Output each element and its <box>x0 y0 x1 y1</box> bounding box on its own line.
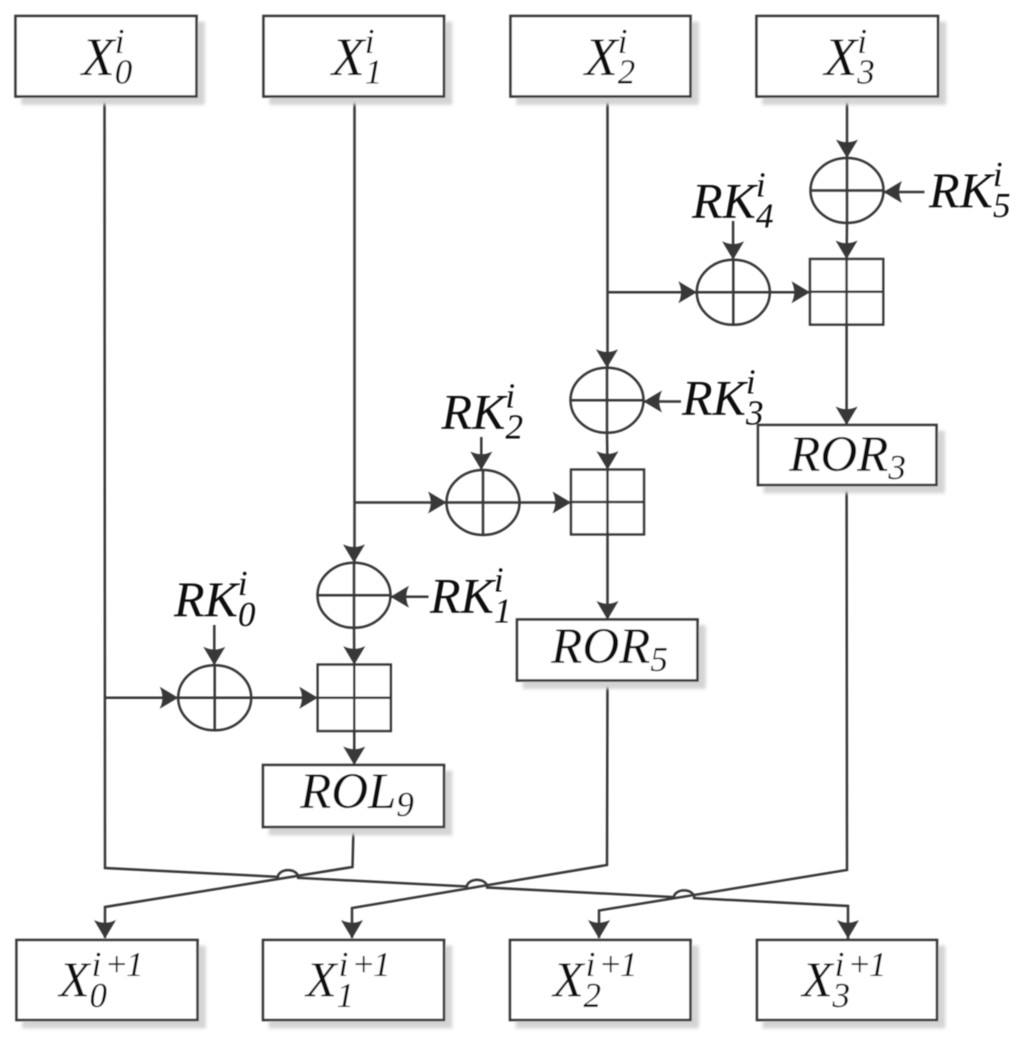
arrow RK2 into xor (top) <box>470 452 492 471</box>
svg-text:ROR3: ROR3 <box>788 427 906 487</box>
arrow into ROL9 <box>343 747 365 766</box>
svg-text:RKi3: RKi3 <box>681 363 763 433</box>
X2^i input box <box>511 16 691 97</box>
wire X3 vertical <box>846 96 849 158</box>
ROR3 rotate box <box>758 425 937 487</box>
wire RK0 label to xor <box>213 625 216 665</box>
arrow into X3^(i+1) box <box>837 920 859 939</box>
X1^i input box <box>264 16 445 97</box>
arrow into ROR3 <box>836 407 858 426</box>
svg-text:1: 1 <box>337 976 355 1015</box>
arrow into RK1 xor (top) <box>343 544 365 563</box>
wire RK3 xor to add box 2 <box>606 433 609 470</box>
svg-text:1: 1 <box>869 945 887 984</box>
svg-text:2: 2 <box>584 976 602 1015</box>
xor gate for RK1 (X1 line) <box>318 563 391 628</box>
arrow into add box 2 (left) <box>553 492 572 514</box>
wire ROR3 output crossover to X2 output <box>599 485 847 938</box>
wire ROL9 output crossover to X0 output <box>105 827 354 938</box>
svg-text:ROR5: ROR5 <box>550 619 668 679</box>
xor gate for RK2 (X1 branch) <box>447 470 520 535</box>
modular add box (X0,X1 branch) <box>318 665 391 731</box>
X0^(i+1) output box <box>17 940 198 1020</box>
svg-text:X: X <box>304 951 339 1007</box>
wire RK4 label to xor <box>732 221 735 260</box>
svg-text:RKi2: RKi2 <box>441 377 523 447</box>
wire RK3 label to xor <box>644 400 682 403</box>
arrow into add box 1 (left) <box>299 687 318 709</box>
arrow into add box 3 (left) <box>792 281 811 303</box>
arrow into RK4 xor (left) <box>678 281 697 303</box>
wire X0 vertical + long crossover to X3 output (with hops) <box>105 96 849 939</box>
svg-text:1: 1 <box>620 945 638 984</box>
svg-text:RKi0: RKi0 <box>173 564 256 634</box>
svg-text:3: 3 <box>832 976 851 1015</box>
wire X1 vertical <box>353 96 356 563</box>
modular add box (X2,X3 branch) <box>810 259 883 325</box>
wire RK1 xor to add box 1 <box>353 628 356 665</box>
arrow RK5 into xor (right) <box>884 181 903 203</box>
wire add box 1 to ROL9 <box>353 731 356 765</box>
arrow into RK0 xor (left) <box>160 687 179 709</box>
svg-text:0: 0 <box>90 976 108 1015</box>
X0^i input box <box>16 16 197 97</box>
arrow into ROR5 <box>597 601 619 620</box>
arrow into X1^(i+1) box <box>341 920 363 939</box>
svg-text:X: X <box>551 951 586 1007</box>
svg-text:RKi4: RKi4 <box>691 166 773 236</box>
wire X2 branch to RK4 xor <box>608 291 697 294</box>
arrow RK1 into xor (right) <box>391 586 410 608</box>
arrow RK4 into xor (top) <box>722 241 744 260</box>
wire RK5 xor to add box 3 <box>845 223 848 259</box>
wire RK2 label to xor <box>480 437 483 470</box>
arrow into X0^(i+1) box <box>94 920 116 939</box>
xor gate for RK3 (X2 line) <box>571 368 644 433</box>
svg-text:X: X <box>57 951 92 1007</box>
svg-text:+: + <box>848 945 872 984</box>
X2^(i+1) output box <box>510 940 691 1020</box>
wire RK0 xor to add box 1 <box>251 697 318 700</box>
modular add box (X1,X2 branch) <box>571 470 644 535</box>
arrow into RK2 xor (left) <box>428 492 447 514</box>
wire add box 3 to ROR3 <box>845 325 848 425</box>
svg-text:RKi1: RKi1 <box>429 561 511 631</box>
wire X1 branch to RK2 xor <box>355 501 447 504</box>
svg-text:1: 1 <box>373 945 391 984</box>
wire X2 vertical <box>606 96 609 368</box>
ROL9 rotate box <box>263 764 444 827</box>
X3^i input box <box>757 16 939 97</box>
arrow into add box 1 (top) <box>343 646 365 665</box>
xor gate for RK4 (X2 branch) <box>697 260 770 325</box>
arrow RK3 into xor (right) <box>644 391 663 413</box>
xor gate for RK0 (X0 branch) <box>178 665 251 730</box>
arrow into RK3 xor (top) <box>596 349 618 368</box>
svg-text:Xi3: Xi3 <box>822 22 875 92</box>
wire add box 2 to ROR5 <box>606 534 609 619</box>
wire X0 branch to RK0 xor <box>105 697 179 700</box>
svg-text:+: + <box>352 945 376 984</box>
ROR5 rotate box <box>517 619 698 681</box>
svg-text:X: X <box>800 951 835 1007</box>
svg-text:1: 1 <box>126 945 144 984</box>
wire RK1 label to xor <box>391 596 429 599</box>
svg-text:RKi5: RKi5 <box>928 155 1010 225</box>
arrow into RK5 xor (top) <box>836 140 858 159</box>
svg-text:+: + <box>599 945 623 984</box>
X3^(i+1) output box <box>757 940 937 1020</box>
arrow into add box 2 (top) <box>597 451 619 470</box>
arrow into add box 3 (top) <box>836 241 858 260</box>
X1^(i+1) output box <box>263 940 444 1020</box>
wire RK4 xor to add box 3 <box>770 291 810 294</box>
arrow RK0 into xor (top) <box>203 647 225 666</box>
xor gate for RK5 (X3 line) <box>811 158 884 223</box>
wire RK5 label to xor <box>884 191 925 194</box>
wire ROR5 output crossover to X1 output <box>352 681 608 939</box>
svg-text:Xi1: Xi1 <box>330 22 383 92</box>
arrow into X2^(i+1) box <box>588 920 610 939</box>
svg-text:Xi2: Xi2 <box>583 22 636 92</box>
wire RK2 xor to add box 2 <box>520 501 572 504</box>
svg-text:+: + <box>105 945 129 984</box>
